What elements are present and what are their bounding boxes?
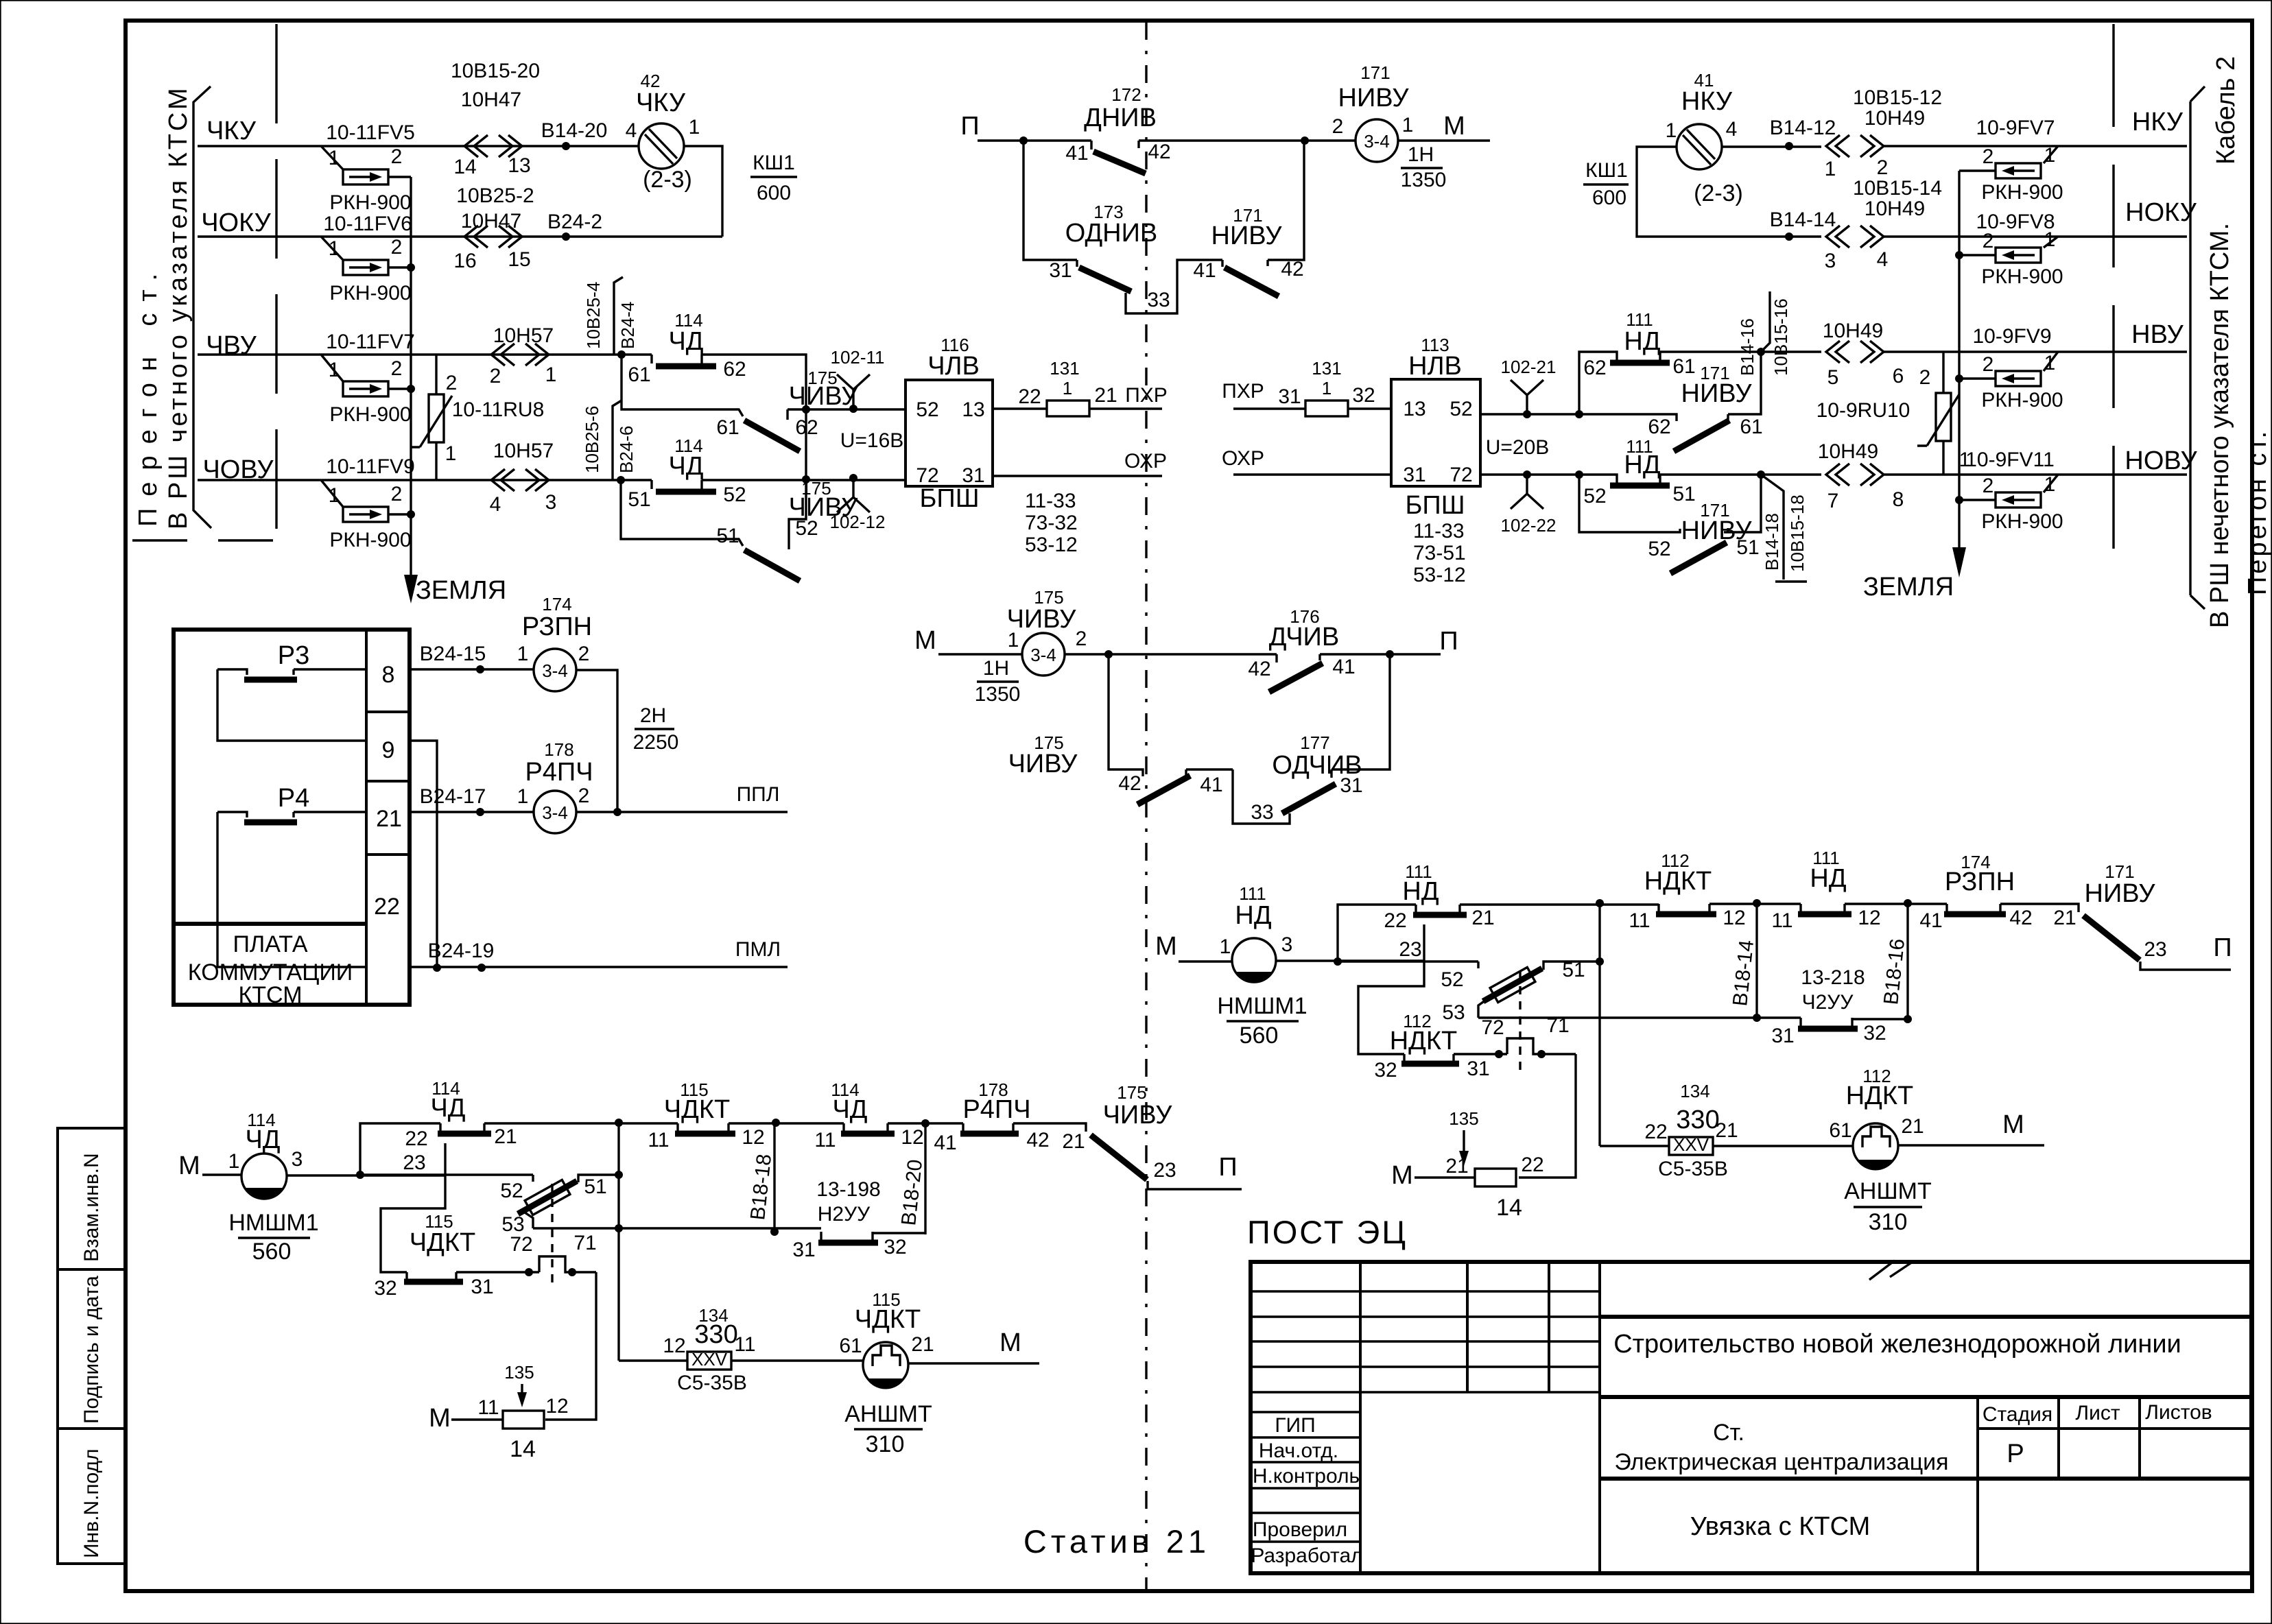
svg-text:23: 23: [1153, 1159, 1176, 1182]
svg-text:10-11FV5: 10-11FV5: [326, 121, 415, 144]
svg-text:22: 22: [1521, 1154, 1543, 1176]
svg-text:Ч2УУ: Ч2УУ: [1802, 991, 1854, 1014]
riser В18-18: [773, 1123, 775, 1232]
wire FV7L to ground bus: [388, 387, 411, 390]
svg-text:71: 71: [1546, 1014, 1569, 1037]
wire terminal9 to ПМЛ: [410, 741, 437, 968]
boundary dashed horizontal bottom left: [127, 539, 273, 541]
svg-text:32: 32: [1374, 1059, 1397, 1082]
wire FV8 to ground bus right: [1959, 254, 1996, 256]
wire ЧОКУ: [198, 235, 722, 237]
connector 4-3 10Н57: [491, 469, 549, 491]
svg-text:42: 42: [1281, 258, 1303, 280]
contact ЧИВУ 61-62 (175) upper back: [622, 355, 806, 420]
svg-text:2: 2: [490, 365, 501, 387]
svg-text:53-12: 53-12: [1025, 534, 1078, 556]
fuse FV5 РКН-900: [343, 169, 388, 184]
riser В14-18 10В15-18: [1761, 475, 1807, 582]
svg-text:ЧИВУ: ЧИВУ: [789, 382, 859, 411]
bracket left side: [193, 86, 211, 528]
wire НИВУ coil to М: [1398, 139, 1490, 141]
svg-text:ЧОКУ: ЧОКУ: [201, 208, 271, 237]
wire to node Jb': [1460, 903, 1659, 905]
svg-text:41: 41: [1332, 656, 1355, 678]
svg-text:БПШ: БПШ: [919, 484, 979, 513]
svg-text:НИВУ: НИВУ: [1211, 222, 1283, 250]
svg-text:1: 1: [1402, 114, 1414, 136]
svg-text:Лист: Лист: [2075, 1402, 2120, 1424]
svg-text:61: 61: [1829, 1119, 1851, 1142]
title block signature rows: [1251, 1412, 1360, 1542]
svg-text:2: 2: [1983, 230, 1994, 252]
svg-text:В18-16: В18-16: [1880, 938, 1909, 1006]
svg-text:600: 600: [1592, 187, 1626, 209]
svg-text:B24-15: B24-15: [420, 643, 486, 665]
svg-text:1: 1: [2044, 473, 2056, 496]
svg-text:1: 1: [228, 1150, 240, 1173]
svg-text:131: 131: [1312, 358, 1341, 379]
svg-text:174: 174: [542, 594, 571, 614]
svg-text:31: 31: [471, 1276, 493, 1298]
svg-text:11: 11: [814, 1129, 836, 1151]
svg-text:31: 31: [1340, 774, 1362, 797]
ground bus left: [410, 177, 412, 580]
fuse FV6 РКН-900: [343, 260, 388, 275]
svg-text:Статив 21: Статив 21: [1023, 1523, 1210, 1560]
svg-text:14: 14: [510, 1436, 536, 1462]
svg-text:П: П: [1439, 627, 1458, 656]
connector 1-2 НКУ row: [1826, 135, 1884, 157]
svg-text:32: 32: [884, 1236, 906, 1258]
svg-text:42: 42: [1148, 141, 1170, 163]
svg-text:М: М: [1391, 1161, 1413, 1190]
connector 14-13 10Н47: [464, 135, 522, 157]
contact НИВУ 62-61 (171) upper back: [1579, 352, 1761, 421]
svg-text:12: 12: [1723, 907, 1745, 929]
mech link dashed ЧДКТ: [551, 1184, 553, 1284]
svg-text:ЧИВУ: ЧИВУ: [1008, 750, 1078, 778]
svg-text:23: 23: [403, 1151, 425, 1174]
svg-text:КШ1: КШ1: [1585, 159, 1628, 182]
svg-text:КТСМ: КТСМ: [238, 982, 302, 1008]
svg-text:175: 175: [1117, 1082, 1146, 1103]
node J5': [1757, 470, 1765, 479]
svg-text:Р3: Р3: [278, 641, 309, 670]
svg-text:1: 1: [517, 643, 529, 665]
svg-text:22: 22: [1384, 909, 1406, 932]
svg-text:10В25-2: 10В25-2: [456, 184, 534, 207]
branch up to contact row: [360, 1123, 440, 1175]
svg-text:В РШ четного указателя КТСМ: В РШ четного указателя КТСМ: [164, 85, 193, 529]
svg-text:13: 13: [962, 398, 984, 421]
svg-text:72: 72: [1449, 464, 1472, 486]
svg-text:41: 41: [934, 1132, 956, 1154]
vertical bus x=2332 lower-right: [1598, 903, 1600, 1146]
svg-text:21: 21: [494, 1125, 517, 1148]
svg-text:ЧД: ЧД: [668, 452, 703, 481]
svg-text:НКУ: НКУ: [2132, 108, 2184, 136]
svg-text:1350: 1350: [1401, 169, 1447, 191]
svg-text:7: 7: [1827, 490, 1839, 512]
svg-text:1: 1: [1008, 629, 1019, 652]
svg-text:10-9RU10: 10-9RU10: [1817, 399, 1910, 422]
svg-text:2: 2: [578, 785, 590, 807]
svg-text:2: 2: [391, 236, 403, 259]
node J4: [802, 475, 810, 483]
svg-text:М: М: [2002, 1110, 2024, 1139]
svg-text:41: 41: [1200, 774, 1222, 796]
svg-text:5: 5: [1827, 366, 1839, 389]
svg-text:АНШМТ: АНШМТ: [1844, 1178, 1931, 1204]
svg-text:ПХР: ПХР: [1222, 380, 1264, 403]
svg-text:РКН-900: РКН-900: [1981, 181, 2063, 204]
riser В18-14: [1755, 903, 1758, 1018]
svg-text:Ст.: Ст.: [1713, 1420, 1744, 1446]
svg-text:330: 330: [694, 1320, 737, 1349]
vertical bus x=902 lower-left: [617, 1123, 619, 1361]
svg-text:61: 61: [1740, 416, 1762, 438]
wire FV6 to ground bus: [388, 266, 411, 268]
svg-text:600: 600: [757, 182, 791, 204]
svg-text:ОХР: ОХР: [1222, 447, 1264, 470]
svg-text:2: 2: [1983, 353, 1994, 376]
wire FV9 to ground bus right: [1959, 377, 1996, 379]
svg-text:31: 31: [1467, 1058, 1489, 1080]
stamp box Инв.N.подл: [58, 1429, 126, 1564]
svg-text:10Н49: 10Н49: [1865, 198, 1925, 220]
transformer ЧКУ 42: [639, 123, 684, 169]
svg-text:В18-14: В18-14: [1729, 939, 1758, 1007]
svg-text:134: 134: [1680, 1081, 1709, 1101]
svg-text:22: 22: [1644, 1121, 1667, 1143]
svg-text:U=16В: U=16В: [840, 429, 904, 452]
svg-text:Строительство новой железнод: Строительство новой железнодорожной лини…: [1613, 1330, 2181, 1359]
svg-text:ЧД: ЧД: [832, 1095, 867, 1124]
svg-text:31: 31: [1771, 1025, 1794, 1047]
wire ЧД52 to J4: [702, 479, 906, 481]
svg-text:НИВУ: НИВУ: [2085, 879, 2156, 908]
svg-text:B14-16: B14-16: [1737, 318, 1758, 376]
svg-text:НД: НД: [1402, 877, 1439, 906]
node 33 dip (ОДЧИВ): [1233, 769, 1290, 824]
svg-text:10В15-12: 10В15-12: [1853, 86, 1942, 109]
contact ЧИВУ 51-52 (175) lower back: [621, 480, 789, 549]
wire НОКУ to cable: [1884, 235, 2187, 237]
svg-text:НОВУ: НОВУ: [2125, 446, 2197, 475]
svg-text:560: 560: [252, 1239, 292, 1265]
wire ЧД3 to junction: [287, 1174, 445, 1176]
svg-text:2: 2: [1877, 156, 1889, 179]
stage/sheet header cells: [1978, 1397, 2251, 1573]
svg-text:БПШ: БПШ: [1405, 491, 1465, 520]
KTSM cabinet boundary dashed (left): [275, 24, 277, 540]
wire to node Ja: [484, 1122, 678, 1124]
svg-text:М: М: [999, 1328, 1021, 1357]
svg-text:U=20В: U=20В: [1486, 436, 1550, 459]
svg-text:11: 11: [648, 1129, 669, 1151]
svg-text:6: 6: [1893, 365, 1904, 387]
tap 102-21: [1511, 380, 1543, 418]
coil Р4ПЧ 178 (3-4): [534, 791, 576, 833]
svg-text:8: 8: [382, 662, 395, 688]
svg-text:Стадия: Стадия: [1983, 1403, 2052, 1426]
tap 102-11: [837, 374, 870, 413]
svg-text:НИВУ: НИВУ: [1681, 379, 1753, 408]
box НЛВ БПШ 113: [1391, 379, 1480, 486]
svg-text:1: 1: [1220, 935, 1231, 958]
svg-text:2: 2: [391, 145, 403, 168]
svg-text:B24-6: B24-6: [616, 426, 637, 473]
node В18-20 top: [888, 1122, 963, 1124]
svg-text:B14-14: B14-14: [1770, 208, 1836, 231]
svg-text:Листов: Листов: [2145, 1401, 2212, 1424]
svg-text:Электрическая централизация: Электрическая централизация: [1614, 1449, 1948, 1475]
svg-text:ПЛАТА: ПЛАТА: [233, 931, 307, 957]
svg-text:51: 51: [628, 488, 650, 511]
svg-text:КШ1: КШ1: [753, 152, 795, 174]
svg-text:135: 135: [1449, 1108, 1478, 1129]
box ПЛАТА КОММУТАЦИИ КТСМ: [174, 630, 410, 1005]
svg-text:10В25-4: 10В25-4: [583, 282, 604, 349]
ground bus right: [1958, 171, 1960, 549]
contact Ч2УУ 31-32: [1801, 1018, 1852, 1026]
svg-text:B14-20: B14-20: [541, 119, 608, 142]
wire 23-line right: [1338, 960, 1478, 962]
svg-text:2: 2: [391, 357, 403, 380]
wire terminal8 to РЗПН: [410, 668, 534, 670]
svg-text:XXV: XXV: [691, 1349, 728, 1370]
wire П: [978, 139, 1091, 141]
svg-text:РКН-900: РКН-900: [1981, 510, 2063, 533]
contact НДКТ 72-71 notch right: [1507, 1038, 1576, 1054]
svg-text:Проверил: Проверил: [1253, 1518, 1347, 1541]
svg-text:4: 4: [626, 119, 637, 142]
svg-text:1: 1: [1063, 378, 1072, 398]
svg-text:М: М: [1443, 112, 1465, 141]
svg-text:B24-19: B24-19: [428, 940, 495, 962]
svg-text:1: 1: [689, 116, 700, 139]
title block outer: [1251, 1262, 2251, 1573]
svg-text:51: 51: [1672, 483, 1695, 505]
connector 16-15 10Н47: [464, 226, 522, 248]
svg-text:178: 178: [544, 739, 573, 760]
svg-text:10Н57: 10Н57: [493, 324, 554, 347]
fuse FV7L РКН-900: [343, 381, 388, 396]
svg-text:12: 12: [1858, 907, 1880, 929]
box ЧЛВ БПШ 116: [906, 380, 993, 486]
svg-text:ЧИВУ: ЧИВУ: [1103, 1101, 1173, 1130]
svg-text:52: 52: [1648, 538, 1670, 560]
svg-text:1: 1: [1825, 158, 1836, 180]
connector 7-8 НОВУ row: [1826, 464, 1884, 486]
svg-text:АНШМТ: АНШМТ: [844, 1401, 932, 1427]
wire М to ЧД relay: [202, 1173, 241, 1175]
svg-text:31: 31: [1403, 464, 1425, 486]
svg-text:2: 2: [1076, 628, 1087, 650]
svg-text:3-4: 3-4: [1364, 131, 1390, 152]
svg-text:1: 1: [329, 359, 340, 381]
svg-text:21: 21: [1901, 1115, 1924, 1138]
fuse line 330 XXV С5-35В right: [1600, 1145, 1853, 1147]
svg-text:ДЧИВ: ДЧИВ: [1269, 623, 1339, 652]
wire РЗПН to НИВУ contact: [2000, 904, 2079, 912]
svg-text:51: 51: [716, 525, 739, 547]
svg-text:51: 51: [584, 1175, 606, 1198]
svg-text:10Н49: 10Н49: [1818, 440, 1878, 463]
svg-text:131: 131: [1050, 358, 1079, 379]
svg-text:560: 560: [1240, 1023, 1279, 1049]
wire box13 to ПХР: [993, 407, 1162, 409]
node B14-20: [562, 142, 570, 150]
node J1 ЧВУ junction: [617, 350, 626, 359]
svg-text:Р4: Р4: [278, 784, 309, 813]
svg-text:ОХР: ОХР: [1124, 450, 1167, 473]
svg-text:21: 21: [1094, 384, 1117, 407]
svg-text:52: 52: [795, 517, 818, 540]
svg-text:НВУ: НВУ: [2131, 320, 2184, 349]
wire 23 to П (right): [2140, 962, 2231, 970]
svg-text:Увязка с КТСМ: Увязка с КТСМ: [1690, 1512, 1871, 1541]
svg-text:310: 310: [1869, 1209, 1908, 1235]
svg-text:21: 21: [1471, 907, 1494, 929]
wire terminal21 ППЛ: [410, 811, 788, 813]
svg-text:32: 32: [1863, 1022, 1886, 1044]
svg-text:32: 32: [1352, 384, 1375, 407]
wire transformer to loop: [684, 146, 722, 237]
coil РЗПН 174 (3-4): [534, 649, 576, 691]
svg-text:НМШМ1: НМШМ1: [228, 1210, 318, 1236]
svg-text:3: 3: [292, 1148, 303, 1171]
svg-text:П: П: [2213, 933, 2232, 962]
svg-text:ЧД: ЧД: [245, 1125, 280, 1154]
svg-text:73-32: 73-32: [1025, 512, 1078, 534]
svg-text:33: 33: [1147, 289, 1170, 311]
svg-text:42: 42: [1248, 658, 1270, 680]
node 33 dip: [1126, 260, 1222, 313]
wire М to НД relay: [1179, 960, 1233, 962]
svg-text:22: 22: [405, 1127, 427, 1150]
fuse FV9L РКН-900: [343, 507, 388, 522]
Z-branch to НДКТ 32-31 right: [1358, 962, 1424, 1054]
fuse line 330 XXV С5-35В: [619, 1359, 863, 1361]
wire to 72-71 notch right: [1454, 1053, 1507, 1055]
svg-text:21: 21: [376, 806, 402, 832]
svg-text:10Н47: 10Н47: [461, 88, 521, 111]
wire ЧВУ: [198, 353, 652, 355]
svg-text:42: 42: [2009, 907, 2032, 929]
node J2': [1575, 410, 1583, 418]
svg-text:РКН-900: РКН-900: [329, 403, 411, 426]
wire ЧКУ: [198, 145, 638, 147]
svg-text:23: 23: [2144, 938, 2166, 961]
svg-text:ДНИВ: ДНИВ: [1084, 104, 1157, 132]
svg-text:33: 33: [1251, 801, 1273, 824]
svg-text:1: 1: [329, 147, 340, 169]
svg-text:XXV: XXV: [1673, 1134, 1709, 1155]
svg-text:М: М: [178, 1151, 200, 1180]
stub ЧД terminal 23: [444, 1143, 446, 1175]
svg-text:102-12: 102-12: [830, 512, 886, 532]
contact НД 62-61 (111) upper: [1579, 352, 1761, 414]
relay НД 111 НМШМ1/560: [1232, 938, 1276, 982]
svg-text:53: 53: [1442, 1001, 1465, 1024]
svg-text:РЗПН: РЗПН: [1945, 868, 2015, 896]
svg-text:РКН-900: РКН-900: [329, 191, 411, 214]
wire ДНИВ42 to НИВУ coil: [1139, 139, 1356, 141]
svg-text:102-11: 102-11: [830, 347, 884, 368]
svg-text:52: 52: [916, 398, 938, 421]
svg-text:РКН-900: РКН-900: [329, 282, 411, 304]
node J3 ЧОВУ junction: [617, 476, 625, 484]
node J3': [1757, 348, 1765, 356]
svg-text:Кабель 2: Кабель 2: [2212, 56, 2240, 165]
svg-text:52: 52: [1583, 485, 1606, 508]
svg-text:31: 31: [1278, 385, 1301, 408]
wire НКУ upper row: [1722, 145, 1821, 147]
svg-text:21: 21: [2053, 907, 2076, 929]
svg-text:3-4: 3-4: [1030, 645, 1056, 665]
svg-text:1350: 1350: [975, 683, 1021, 706]
svg-text:1Н: 1Н: [983, 657, 1009, 680]
svg-text:Подпись и дата: Подпись и дата: [80, 1276, 103, 1424]
svg-text:ПМЛ: ПМЛ: [735, 938, 781, 961]
contact НИВУ 52-51 (171) lower back: [1579, 475, 1761, 532]
title block main dividers: [1600, 1317, 2251, 1479]
svg-text:НИВУ: НИВУ: [1338, 84, 1410, 112]
wire FV9L to ground bus: [388, 513, 411, 515]
svg-text:13: 13: [1403, 398, 1425, 420]
svg-text:11: 11: [477, 1396, 499, 1419]
svg-text:12: 12: [545, 1395, 568, 1418]
wire М to ЧИВУ coil: [938, 653, 1022, 655]
svg-text:51: 51: [1736, 536, 1759, 559]
svg-text:72: 72: [1481, 1016, 1504, 1039]
svg-text:Нач.отд.: Нач.отд.: [1259, 1440, 1338, 1462]
svg-text:13: 13: [508, 154, 530, 177]
fuse FV6 fork wire: [321, 237, 343, 260]
svg-text:НКУ: НКУ: [1681, 87, 1733, 116]
svg-text:1: 1: [1322, 378, 1332, 398]
svg-text:B14-18: B14-18: [1762, 513, 1782, 571]
svg-text:2250: 2250: [633, 731, 679, 754]
svg-text:ЧДКТ: ЧДКТ: [855, 1305, 921, 1334]
svg-text:3: 3: [1825, 250, 1836, 272]
svg-text:2: 2: [1332, 115, 1344, 138]
relay ЧД 114 НМШМ1/560: [241, 1154, 287, 1199]
fold mark line: [1145, 22, 1147, 1590]
svg-text:16: 16: [453, 250, 476, 272]
svg-text:1: 1: [2044, 228, 2056, 251]
bracket right side: [2190, 86, 2205, 609]
svg-text:М: М: [1155, 932, 1177, 961]
svg-text:135: 135: [504, 1362, 534, 1383]
wire coil to П junction: [1065, 653, 1277, 655]
svg-text:61: 61: [839, 1335, 862, 1357]
svg-text:Р4ПЧ: Р4ПЧ: [525, 758, 593, 787]
svg-text:61: 61: [716, 416, 739, 439]
svg-text:ЗЕМЛЯ: ЗЕМЛЯ: [416, 576, 506, 605]
svg-text:Перегон ст.: Перегон ст.: [2243, 429, 2272, 595]
svg-text:(2-3): (2-3): [643, 167, 692, 193]
svg-text:В18-18: В18-18: [746, 1153, 776, 1221]
wire Н2УУ to В18-20: [873, 1232, 925, 1234]
contact НДКТ 52-51-53 thermal right: [1477, 962, 1479, 968]
svg-text:ОДНИВ: ОДНИВ: [1065, 219, 1158, 248]
svg-text:42: 42: [1026, 1129, 1049, 1151]
svg-text:М: М: [914, 626, 936, 655]
wire down to resistor 135: [545, 1272, 596, 1420]
svg-text:РКН-900: РКН-900: [1981, 389, 2063, 411]
